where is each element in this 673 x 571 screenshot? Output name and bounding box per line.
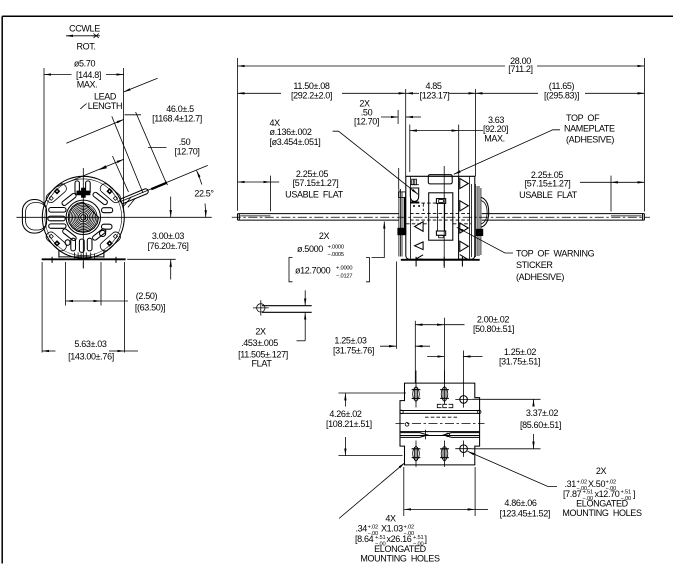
through-bolt head top-left [412,179,417,185]
svg-text:4X: 4X [385,513,396,523]
shaft right flat line [611,215,642,217]
lower-left diagonal vent slot [62,228,77,241]
extension line body left [405,89,407,176]
1.25±.03 dim lines [380,345,396,347]
upper-left diagonal vent slot [61,193,77,207]
28.00 dim line [238,65,506,67]
2.00 dim arrows [416,324,445,326]
flat detail circle [257,304,265,312]
svg-text:STICKER: STICKER [516,260,553,270]
4.86 dim arrows [404,508,475,510]
dia 5.70 dim lines [44,74,72,76]
base legs [59,250,104,257]
svg-text:[1168.4±12.7]: [1168.4±12.7] [152,113,202,123]
right vent triangle 1 [460,178,469,188]
left band black foot [397,228,406,235]
(11.65) dim line [476,92,538,94]
CCWLE rotation arrow [66,35,97,37]
drawing frame top border [2,15,673,17]
ccd marks [437,404,453,407]
bottom vent slot 3 [87,238,92,251]
right rear hub bulge outer [481,197,489,227]
svg-text:NAMEPLATE: NAMEPLATE [564,123,615,133]
left horizontal vent slot 2 [48,216,65,221]
svg-text:MOUNTING HOLES: MOUNTING HOLES [562,508,642,518]
svg-text:.453±.005: .453±.005 [241,338,278,348]
dia .136 leader [333,131,418,194]
motor body outline [406,176,475,259]
base center dash line [396,423,485,425]
svg-text:[123.17]: [123.17] [420,90,450,100]
46.0 dim line lower segment [55,159,124,187]
shaft hidden through body [410,214,470,221]
mounting lug cluster bottom-left [44,230,68,252]
svg-text:[85.60±.51]: [85.60±.51] [520,420,561,430]
svg-text:[123.45±1.52]: [123.45±1.52] [500,508,550,518]
svg-text:+.51: +.51 [375,535,385,541]
svg-text:X1.03: X1.03 [381,524,403,534]
svg-text:[ø3.454±.051]: [ø3.454±.051] [270,137,321,147]
svg-text:[292.2±2.0]: [292.2±2.0] [291,90,332,100]
stud extension lines up [415,318,444,383]
front view horizontal centerline [17,216,212,218]
hidden line under bolt [410,202,437,204]
left band clamp box [399,192,406,198]
46.0 dim line upper-right segment [124,78,158,92]
warning sticker leader [457,227,513,253]
svg-text:3.37±.02: 3.37±.02 [526,408,559,418]
svg-text:[57.15±1.27]: [57.15±1.27] [293,178,339,188]
svg-text:.31: .31 [565,479,577,489]
left mounting band [399,189,402,257]
shaft right end cap [643,214,645,221]
break double arrowhead [98,165,107,170]
wire end tick [166,181,168,186]
hub outer circle [66,200,100,234]
hub 16-gon washer [68,202,98,232]
small oil hole circle right [100,230,106,236]
base ticks [416,257,462,267]
base plate under body (thick) [401,259,480,261]
svg-text:46.0±.5: 46.0±.5 [166,104,194,114]
left horizontal vent slot 1 [49,208,66,213]
nameplate leader [454,130,560,175]
black bar under teardrop [410,202,419,204]
right callout leader [468,451,558,486]
svg-text:+.51: +.51 [413,535,423,541]
svg-text:(2.50): (2.50) [136,291,158,301]
left vent triangle 1 [415,222,424,232]
svg-text:TOP OF WARNING: TOP OF WARNING [516,249,595,259]
right rear hub bulge inner [481,201,487,225]
svg-text:x26.16: x26.16 [387,534,412,544]
svg-text:+.51: +.51 [621,490,631,496]
shaft end circle with flat [81,215,86,220]
svg-text:[50.80±.51]: [50.80±.51] [473,324,514,334]
flat detail crosshair [253,300,269,315]
svg-text:[8.64: [8.64 [355,534,374,544]
svg-text:1.25±.02: 1.25±.02 [504,347,537,357]
left slot tip [420,433,428,438]
bolt body [410,184,419,186]
svg-text:2X: 2X [255,327,266,337]
svg-text:3.00±.03: 3.00±.03 [152,231,185,241]
inner wall right 1 [458,176,460,259]
base top edge [59,256,104,258]
flat depth arrow bottom and leader L [304,313,306,341]
svg-text:−.0127: −.0127 [336,274,352,280]
motor outer shell circle [42,176,124,258]
bottom slot legs into base [74,253,94,260]
svg-text:[108.21±.51]: [108.21±.51] [326,419,372,429]
left usable flat dim arrows [238,181,271,183]
3.37 dim arrows [533,400,535,407]
left slot lines [401,433,420,438]
dia 5.70 extension line left [43,68,45,205]
right usable flat dim arrows [611,181,644,183]
rotation arrow tail mark [93,34,100,38]
top bearing [436,199,445,204]
extension line body right [475,89,477,176]
3.63 dim line [410,130,459,132]
5.63 dim arrows (outside) [42,350,55,352]
bottom vent slot 1 [71,238,76,251]
4.26 extension lines [338,393,406,456]
2X .50 dim arrows [381,116,398,118]
3.00 dim upper arrow [170,197,172,218]
svg-text:(ADHESIVE): (ADHESIVE) [566,134,614,144]
svg-text:1.25±.03: 1.25±.03 [334,336,367,346]
extension line far left x=237.5 [237,58,239,211]
lead perpendicular extension B [136,112,166,183]
svg-text:+.51: +.51 [583,490,593,496]
svg-text:(ADHESIVE): (ADHESIVE) [516,272,564,282]
top vent slot right [86,181,91,194]
elongated hole bottom (cross circle) [455,441,472,457]
stud bottom-left [412,441,421,467]
left horizontal vent slot 3 [49,224,66,228]
right usable flat extension [610,176,612,212]
svg-text:[(295.83)]: [(295.83)] [544,90,579,100]
extra wires into motor [124,197,135,208]
shaft left flat line [240,215,270,217]
extension line far right x=644.4 [643,58,645,212]
1.25±.02 dim arrows [427,356,444,358]
bottom vent slot small [65,240,70,246]
lead perpendicular extension A [112,116,143,193]
base end ticks [52,257,116,263]
rotor core rect [429,193,453,240]
svg-text:MAX.: MAX. [77,80,98,90]
LEAD LENGTH leader tick [80,104,86,109]
svg-text:[31.75±.51]: [31.75±.51] [499,356,540,366]
svg-text:+.02: +.02 [606,480,616,486]
right vent triangle 3 [460,223,469,233]
hidden dashes mid [425,416,458,418]
band edge lines lower [400,432,480,436]
svg-text:[12.70]: [12.70] [174,146,199,156]
base outline [400,383,480,465]
svg-text:LEAD: LEAD [94,91,117,101]
svg-text:4.26±.02: 4.26±.02 [329,409,362,419]
left usable flat extension [269,176,271,212]
3.00 dim lower arrow [170,260,172,280]
top vent slot left [75,181,79,194]
left callout leader [339,463,405,519]
svg-text:[7.87: [7.87 [563,489,582,499]
elongated hole top (cross circle) [455,391,472,407]
svg-text:2X: 2X [319,231,330,241]
svg-text:.50: .50 [179,137,191,147]
lead bundle thick segment [151,183,166,189]
svg-text:+.0000: +.0000 [328,245,344,251]
drawing frame left border [1,16,3,563]
11.50 dim line [238,92,282,94]
band screw circle left top [400,410,403,413]
svg-text:5.63±.03: 5.63±.03 [74,339,107,349]
bottom vent slot 2 [79,239,84,252]
svg-text:X.50: X.50 [588,479,605,489]
svg-text:22.5°: 22.5° [194,189,214,199]
lone circle left [405,423,409,427]
svg-text:CCWLE: CCWLE [69,24,100,34]
svg-text:[144.8]: [144.8] [76,70,101,80]
svg-text:USABLE FLAT: USABLE FLAT [519,190,578,200]
right slot lines [452,433,480,438]
left vent triangle 2 [415,242,424,250]
big left bracket [289,258,293,282]
4.86 extension lines down [404,467,475,516]
svg-text:−.0005: −.0005 [328,252,344,258]
body vertical centerline [443,166,445,268]
mounting lug cluster top-left [44,182,68,204]
stud bottom-center [440,441,449,467]
flat detail surface lines [262,306,312,313]
left vent triangle 3 partial [416,255,424,259]
svg-text:[76.20±.76]: [76.20±.76] [147,241,188,251]
elongated hole extension up [462,351,464,392]
left extension line from side view foot [396,262,398,349]
svg-text:USABLE FLAT: USABLE FLAT [285,190,344,200]
right band black blob [476,229,483,236]
stud top-center [440,371,449,405]
two rivet dots [413,205,415,207]
svg-text:[31.75±.76]: [31.75±.76] [333,345,374,355]
svg-text:x12.70: x12.70 [595,489,620,499]
inner rim circle [45,179,122,256]
base plate (thick) [42,258,126,260]
inner wall right 2 [470,176,472,259]
lower-right diagonal vent slot [92,228,107,241]
rotor inner verticals [437,203,444,231]
3.63 extension lines [410,125,459,177]
lead sleeve [120,188,149,204]
dia 5.70 extension line right [123,68,125,213]
svg-text:ø.5000: ø.5000 [297,244,323,254]
shaft right segment [482,214,645,221]
svg-text:]: ] [425,534,427,544]
inner wall left [410,177,412,259]
lead perpendicular extension C [113,156,129,192]
shaft left end cap [238,214,240,221]
bottom bearing [436,231,445,235]
mounting lug cluster bottom-right [98,230,122,252]
right vent triangle 2 [460,201,469,211]
front view vertical centerline [82,168,84,268]
band edge lines upper [400,411,480,414]
bearing ripple rings [70,204,98,232]
svg-text:[57.15±1.27]: [57.15±1.27] [525,179,571,189]
mounting lug cluster top-right [98,182,122,204]
right horizontal vent slot 1 [102,208,113,213]
right band verticals [475,184,481,257]
big right bracket [366,258,370,282]
(2.50) dim arrows [66,300,101,302]
lead centerline at 22.5 deg [120,165,208,202]
svg-text:FLAT: FLAT [252,359,273,369]
46.0 dim line mid segment [66,120,123,144]
svg-text:LENGTH: LENGTH [88,101,122,111]
left slot tick [425,430,427,440]
rotor hidden lines [406,223,471,225]
right slot tip [444,433,452,438]
svg-text:+.0000: +.0000 [336,266,352,272]
svg-text:+.02: +.02 [577,480,587,486]
svg-text:ø5.70: ø5.70 [74,58,96,68]
left oval handle outer [22,200,46,234]
svg-text:ROT.: ROT. [76,42,95,52]
left oval handle inner [26,203,47,230]
svg-text:TOP OF: TOP OF [566,113,600,123]
4.26 dim arrows [344,393,346,406]
svg-text:[143.00±.76]: [143.00±.76] [68,351,114,361]
46.0 dim text stub [125,114,142,116]
right horizontal vent slot 2 [102,224,113,229]
band screw circle right top [478,410,481,413]
left band black bar [404,197,406,234]
dia .5000 leader [372,222,385,258]
2X .50 extension lines [397,110,400,189]
svg-text:ELONGATED: ELONGATED [374,544,427,554]
top black cross key [77,188,91,198]
svg-text:2X: 2X [596,466,607,476]
right vent triangle 5 partial [460,255,468,260]
.50 leader [148,147,167,149]
svg-text:[711.2]: [711.2] [508,64,532,74]
svg-text:+.02: +.02 [368,525,378,531]
shaft boss circle [79,213,88,222]
svg-text:.34: .34 [356,524,368,534]
svg-text:MOUNTING HOLES: MOUNTING HOLES [360,553,440,563]
right vent triangle 4 [460,241,469,251]
upper-right diagonal vent slot [92,191,108,205]
svg-text:+.02: +.02 [404,525,414,531]
svg-text:]: ] [633,489,635,499]
stud top-left [412,371,421,408]
nameplate [428,175,452,184]
base extension line right [127,258,176,260]
svg-text:4.86±.06: 4.86±.06 [504,498,537,508]
svg-text:MAX.: MAX. [484,134,505,144]
extension lines below base [42,262,124,353]
teardrop slot [410,188,418,201]
svg-text:[12.70]: [12.70] [354,117,379,127]
flat depth arrow top [304,290,306,305]
3.37 extension lines [472,399,541,449]
22.5 angle arc [204,204,207,218]
svg-text:ø.136±.002: ø.136±.002 [270,127,312,137]
right slot circle [446,433,449,436]
shaft left segment [238,214,400,221]
shaft centerline [232,216,650,218]
svg-text:[(63.50)]: [(63.50)] [135,303,165,313]
4.85 dim line [406,92,419,94]
svg-text:ø12.7000: ø12.7000 [295,266,331,276]
